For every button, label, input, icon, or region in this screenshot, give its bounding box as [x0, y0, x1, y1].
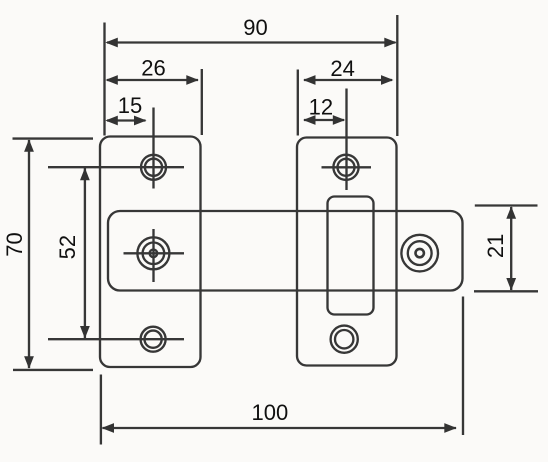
centerline horizontal hole left-top / 52 top extension: [48, 166, 184, 168]
arrow 26 left: [105, 75, 118, 85]
extension line 90/24 right: [396, 15, 398, 136]
centerline vertical hole right-top: [345, 89, 347, 191]
dimension line 52: [84, 168, 86, 338]
arrow 90 left: [105, 38, 118, 48]
tick 21 top: [475, 204, 538, 206]
arrow 12 right: [333, 115, 346, 125]
slot cutout: [328, 197, 374, 315]
centerline horizontal hole left-middle: [124, 252, 185, 254]
tick 70 bottom: [13, 369, 93, 371]
svg-text:90: 90: [243, 15, 267, 40]
centerline vertical hole left-middle: [152, 229, 154, 282]
arrow 12 left: [303, 115, 316, 125]
svg-text:12: 12: [309, 94, 333, 119]
arrow 70 down: [24, 356, 34, 369]
hole right-bottom inner: [335, 330, 353, 348]
label 70 rotated: [2, 232, 27, 256]
arrow 15 right: [134, 116, 147, 126]
knob outer: [401, 235, 438, 272]
arrow 21 down: [506, 278, 516, 291]
arrow 24 right: [381, 75, 394, 85]
arrow 21 up: [506, 206, 516, 219]
svg-text:52: 52: [55, 235, 80, 259]
bolt bar: [108, 211, 463, 291]
svg-text:70: 70: [2, 232, 27, 256]
svg-text:100: 100: [252, 400, 289, 425]
hole right-top inner: [338, 159, 355, 176]
arrow 24 left: [303, 75, 316, 85]
label 21 rotated: [483, 234, 508, 258]
extension line 100 left: [100, 375, 102, 445]
extension line 24 left: [297, 70, 299, 136]
hole left-middle outer: [137, 237, 169, 269]
left mounting plate: [100, 137, 201, 368]
arrow 70 up: [24, 139, 34, 152]
knob middle: [408, 241, 432, 265]
svg-text:24: 24: [330, 56, 354, 81]
tick 21 bottom: [474, 290, 538, 292]
knob inner: [416, 249, 424, 257]
label 52 rotated: [55, 235, 80, 259]
dimension line 15: [107, 119, 146, 121]
arrow 100 left: [102, 423, 115, 433]
dimension line 21: [510, 207, 512, 290]
extension line 90 left: [103, 23, 105, 136]
extension line 26 right: [201, 69, 203, 135]
hole left-middle mid: [143, 243, 165, 265]
arrow 52 up: [80, 168, 90, 181]
arrow 90 right: [384, 38, 397, 48]
hole right-bottom outer: [331, 326, 358, 353]
arrow 26 right: [186, 75, 199, 85]
hole right-top outer: [333, 155, 358, 180]
dimension line 12: [304, 119, 344, 121]
right mounting plate: [297, 138, 397, 366]
tick 70 top: [13, 137, 94, 139]
centerline horizontal hole left-bottom / 52 bottom extension: [48, 338, 184, 340]
arrow 100 right: [444, 423, 457, 433]
hole left-top inner: [145, 159, 162, 176]
extension line 100 right: [462, 297, 464, 436]
hole left-bottom outer: [141, 327, 166, 352]
dimension line 70: [28, 140, 30, 368]
dimension line 26: [107, 79, 198, 81]
svg-text:21: 21: [483, 234, 508, 258]
dimension line 24: [304, 79, 392, 81]
svg-text:15: 15: [118, 93, 142, 118]
hole left-bottom inner: [145, 331, 162, 348]
dimension line 90: [107, 41, 396, 43]
hole left-middle inner: [150, 250, 158, 258]
svg-text:26: 26: [141, 55, 165, 80]
hole left-top outer: [141, 155, 166, 180]
arrow 15 left: [105, 116, 118, 126]
dimension line 100: [103, 427, 457, 429]
centerline horizontal hole right-top: [322, 166, 372, 168]
arrow 52 down: [80, 326, 90, 339]
centerline vertical hole left-top: [152, 108, 154, 189]
